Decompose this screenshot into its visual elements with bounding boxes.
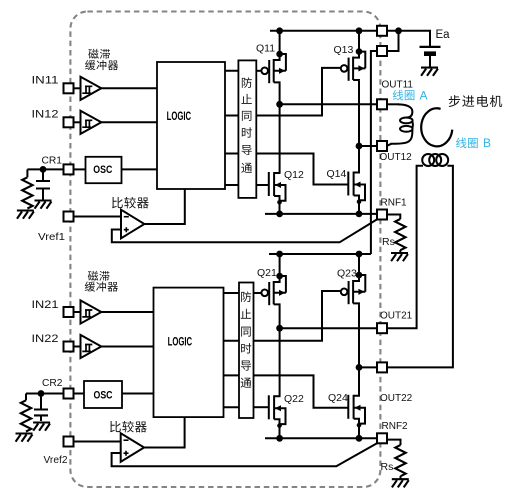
- transistor Q22 (NMOS): [269, 395, 286, 428]
- svg-text:Q21: Q21: [257, 267, 277, 279]
- comparator 1 比较器: [121, 210, 144, 239]
- wire: CR2 capacitor to ground: [40, 415, 42, 421]
- svg-text:Vref2: Vref2: [44, 454, 68, 466]
- wire: gate drive Q23: [253, 291, 341, 341]
- svg-text:OUT22: OUT22: [380, 393, 413, 404]
- ground (CR1 resistor): [17, 211, 34, 219]
- capacitor C1 (CR1 timing): [36, 181, 50, 189]
- svg-text:Q13: Q13: [334, 44, 354, 56]
- wire: supply pin 2 left branch down to lower bridge rail: [371, 51, 377, 254]
- wire: RNF2 pin to sense resistor Rs: [387, 440, 401, 445]
- wire: Q23 source to OUT22 node: [358, 304, 360, 367]
- node: lower rail / Q23 drain: [356, 251, 363, 258]
- node: RNF2 / Q24 source: [356, 435, 363, 442]
- wire: CR2 node to pin: [26, 393, 64, 395]
- transistor Q11 (PMOS): [261, 51, 286, 83]
- wire: OUT12 rail: [359, 145, 377, 147]
- svg-text:A: A: [420, 89, 428, 103]
- wire: RNF2 rail: [265, 437, 377, 439]
- hysteresis buffer U3 (IN21): [81, 300, 102, 323]
- label 缓冲器 (buffer, channel 1): [85, 60, 118, 70]
- node: CR1 junction: [40, 166, 47, 173]
- label 缓冲器 (buffer, channel 2): [85, 281, 118, 291]
- node: RNF1 / Q12 source: [276, 211, 283, 218]
- transistor Q24 (NMOS): [348, 395, 365, 428]
- pin IN21: [64, 307, 74, 317]
- wire: CR1 node to external resistor: [26, 169, 28, 177]
- IC package boundary (dashed): [70, 12, 380, 488]
- wire: CR1 capacitor to ground: [42, 189, 44, 200]
- capacitor C2 (CR2 timing): [34, 410, 48, 416]
- node: OUT22: [356, 364, 363, 371]
- block: shoot-through interlock (channel 1) 防止同时导通: [238, 60, 256, 198]
- transistor Q21 (PMOS): [261, 273, 286, 306]
- wire: comparator1 output to LOGIC1: [144, 189, 184, 224]
- pin CR1: [64, 164, 74, 174]
- node: supply rail / Q11 drain: [276, 27, 283, 34]
- wire: Q24 source to RNF2 rail: [358, 425, 360, 439]
- svg-text:OSC: OSC: [94, 389, 113, 401]
- wire: Q21 source to OUT21 node: [279, 305, 281, 328]
- inductor: coil B (线圈 B): [422, 154, 448, 166]
- transistor Q23 (PMOS): [341, 272, 366, 305]
- pin RNF1: [377, 210, 387, 220]
- node: OUT12: [356, 143, 363, 150]
- comparator 2 比较器: [121, 433, 144, 462]
- wire: Q14 source to RNF1 rail: [358, 202, 360, 214]
- svg-text:OUT11: OUT11: [382, 80, 414, 91]
- wire: comparator1 feedback from RNF1 pin: [112, 219, 377, 242]
- resistor Rs (RNF2 sense): [395, 445, 405, 476]
- pin VM (supply, channel 2): [377, 46, 387, 56]
- pin OUT21: [377, 323, 387, 333]
- svg-text:RNF1: RNF1: [381, 198, 408, 209]
- pin Vref1: [64, 212, 74, 222]
- svg-text:LOGIC: LOGIC: [168, 335, 193, 349]
- node: supply rail / Ea: [395, 27, 402, 34]
- label 步进电机 (stepper motor): [449, 95, 502, 107]
- svg-text:IN22: IN22: [32, 333, 59, 345]
- block: shoot-through interlock (channel 2) 防止同时导通: [239, 283, 254, 419]
- svg-text:Rs: Rs: [382, 236, 395, 248]
- resistor R2 (CR2 timing): [21, 400, 31, 431]
- svg-text:OSC: OSC: [93, 164, 112, 176]
- pin IN11: [64, 83, 74, 93]
- svg-text:CR2: CR2: [42, 377, 63, 389]
- wire: Q21 drain from lower supply rail: [279, 254, 281, 276]
- transistor Q14 (NMOS): [348, 172, 365, 205]
- wire: OUT11 node down to Q12 drain: [279, 104, 281, 173]
- label 比较器 (comparator 1): [112, 197, 149, 209]
- wire: coil A bottom to OUT12 pin: [387, 144, 392, 146]
- wire: Q13 drain from supply rail: [358, 31, 360, 52]
- pin CR2: [64, 389, 74, 399]
- svg-text:CR1: CR1: [42, 155, 63, 167]
- wire: OUT22 rail: [359, 366, 377, 368]
- wire: comparator2 output to LOGIC2: [143, 417, 184, 447]
- block: LOGIC (channel 2): [154, 288, 224, 418]
- svg-text:OUT21: OUT21: [380, 311, 413, 322]
- wire: gate drive Q13: [256, 68, 341, 116]
- wire: OUT22 node down to Q24 drain: [358, 367, 360, 395]
- wire: OUT21 rail: [280, 327, 377, 329]
- wire: Ea decoupling capacitor to ground: [429, 56, 431, 67]
- svg-text:OUT12: OUT12: [380, 152, 413, 163]
- wire: gate drive Q11: [256, 70, 261, 72]
- svg-text:Vref1: Vref1: [38, 231, 65, 243]
- pin OUT11: [377, 99, 387, 109]
- stepper motor body: [421, 108, 452, 146]
- resistor R1 (CR1 timing): [22, 177, 32, 208]
- hysteresis buffer U2 (IN12): [81, 111, 102, 134]
- wire: OSC1 to LOGIC1: [122, 168, 158, 170]
- wire: Q12 source to RNF1 rail: [279, 202, 281, 214]
- wire: IN22 pin to buffer: [74, 346, 81, 348]
- wire: buffer4 output to LOGIC2: [101, 346, 153, 348]
- svg-text:Q22: Q22: [284, 393, 304, 405]
- wire: buffer3 output to LOGIC2: [101, 311, 153, 313]
- node: CR2 junction: [38, 390, 45, 397]
- block: LOGIC (channel 1): [157, 62, 225, 189]
- wire: buffer2 output to LOGIC1: [101, 121, 157, 123]
- ground (Rs1): [391, 253, 408, 261]
- wire: OUT11 pin to coil A top: [387, 103, 399, 105]
- svg-text:Ea: Ea: [436, 29, 451, 41]
- pin OUT12: [377, 141, 387, 151]
- inductor: coil A (线圈 A): [391, 104, 413, 143]
- pin OUT22: [377, 362, 387, 372]
- hysteresis buffer U1 (IN11): [81, 77, 102, 100]
- wire: CR2 pin to OSC: [74, 393, 85, 395]
- wire: OSC2 to LOGIC2: [122, 393, 154, 395]
- wire: CR2 node to external capacitor: [40, 394, 42, 410]
- wire: CR1 pin to OSC: [74, 168, 86, 170]
- wire: Q23 drain from lower supply rail: [358, 254, 360, 275]
- wire: top supply rail to Ea: [270, 31, 430, 46]
- svg-text:Q14: Q14: [327, 168, 347, 180]
- svg-text:IN21: IN21: [32, 299, 59, 311]
- wire: LOGIC1 to interlock block (4 lines): [225, 71, 238, 185]
- pin RNF2: [377, 433, 387, 443]
- pin VM (supply, channel 1): [377, 26, 387, 36]
- svg-text:IN11: IN11: [32, 75, 59, 87]
- node: OUT11: [276, 101, 283, 108]
- svg-text:Q23: Q23: [337, 268, 357, 280]
- wire: OUT12 node down to Q14 drain: [358, 146, 360, 173]
- wire: supply pin 2 right branch up to Ea rail: [387, 31, 399, 51]
- node: RNF1 / Q14 source: [356, 211, 363, 218]
- label 比较器 (comparator 2): [110, 421, 147, 433]
- ground (CR2 resistor): [16, 434, 33, 442]
- wire: gate drive Q21: [253, 292, 261, 294]
- node: OUT21: [276, 325, 283, 332]
- pin IN22: [64, 342, 74, 352]
- wire: IN12 pin to buffer: [74, 121, 81, 123]
- wire: Q11 drain from supply rail: [279, 31, 281, 54]
- wire: RNF1 rail: [265, 213, 377, 215]
- pin IN12: [64, 117, 74, 127]
- wire: LOGIC2 to interlock block (4 lines): [224, 293, 240, 407]
- wire: Vref2 pin to comparator inverting input: [74, 441, 121, 443]
- ground (CR1 capacitor): [35, 201, 52, 209]
- wire: gate drive Q24: [253, 375, 348, 407]
- node: RNF2 / Q22 source: [276, 435, 283, 442]
- svg-text:Q12: Q12: [284, 169, 304, 181]
- wire: Rs2 to ground: [400, 476, 402, 479]
- svg-text:IN12: IN12: [32, 109, 59, 121]
- wire: RNF1 pin to sense resistor Rs: [387, 215, 400, 220]
- svg-text:Q11: Q11: [256, 43, 275, 55]
- wire: CR2 node to external resistor: [25, 394, 27, 401]
- wire: IN21 pin to buffer: [74, 311, 81, 313]
- ground (Rs2): [392, 479, 409, 487]
- svg-text:Q24: Q24: [328, 392, 348, 404]
- wire: gate drive Q12: [256, 184, 269, 186]
- node: supply rail / Q13 drain: [356, 27, 363, 34]
- svg-text:B: B: [483, 136, 491, 150]
- transistor Q12 (NMOS): [269, 172, 286, 205]
- svg-text:RNF2: RNF2: [382, 421, 409, 432]
- capacitor C3 (Ea decoupling): [420, 47, 441, 54]
- transistor Q13 (PMOS): [341, 48, 366, 81]
- label 线圈 A (coil A): [393, 89, 428, 103]
- wire: gate drive Q14: [256, 154, 348, 185]
- hysteresis buffer U4 (IN22): [81, 335, 102, 358]
- wire: gate drive Q22: [253, 406, 269, 408]
- wire: CR1 node to pin: [27, 168, 63, 170]
- wire: IN11 pin to buffer: [74, 87, 81, 89]
- wire: OUT11 rail: [280, 103, 377, 105]
- wire: Q11 source to OUT11 node: [279, 83, 281, 104]
- resistor Rs (RNF1 sense): [395, 219, 405, 250]
- svg-text:LOGIC: LOGIC: [167, 109, 192, 123]
- wire: CR1 node to external capacitor: [42, 169, 44, 181]
- wire: OUT22 pin to coil B right: [387, 166, 453, 368]
- label 磁滞 (hysteresis, channel 2): [88, 271, 110, 281]
- pin Vref2: [64, 437, 74, 447]
- svg-text:Rs: Rs: [381, 461, 394, 473]
- ground (CR2 capacitor): [33, 423, 50, 431]
- wire: Q13 source to OUT12 node: [358, 81, 360, 146]
- wire: comparator2 feedback from RNF2 pin: [112, 443, 377, 466]
- wire: Vref1 pin to comparator inverting input: [74, 216, 122, 218]
- ground (Ea capacitor): [421, 68, 438, 76]
- node: lower rail / Q21 drain: [276, 251, 283, 258]
- wire: Q22 source to RNF2 rail: [279, 425, 281, 438]
- wire: lower bridge supply rail: [269, 253, 371, 255]
- wire: OUT21 pin to coil B left: [387, 166, 423, 328]
- label 线圈 B (coil B): [456, 136, 491, 150]
- block: OSC (channel 2): [84, 381, 122, 408]
- block: OSC (channel 1): [86, 157, 122, 183]
- wire: buffer1 output to LOGIC1: [101, 87, 157, 89]
- wire: Rs1 to ground: [399, 250, 401, 253]
- wire: OUT21 node down to Q22 drain: [279, 328, 281, 396]
- label 磁滞 (hysteresis, channel 1): [88, 49, 110, 59]
